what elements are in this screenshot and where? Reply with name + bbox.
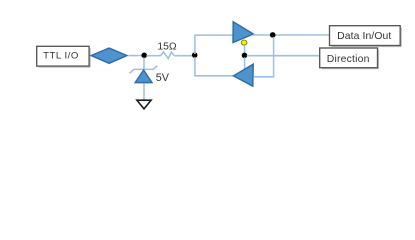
wire enable stub down to node C [244, 46, 246, 54]
svg-text:15Ω: 15Ω [157, 41, 177, 52]
box Data In/Out [330, 26, 402, 47]
wire node D down to buffer U2 input [253, 37, 273, 77]
wire node B down to buffer U2 output [195, 57, 233, 76]
box TTL I/O [37, 46, 90, 67]
node A junction [141, 53, 147, 59]
diamond D1 bidirectional port symbol [91, 48, 127, 63]
wire node A to resistor [147, 55, 161, 57]
wire node C down to buffer U2 enable [244, 57, 246, 69]
svg-text:TTL I/O: TTL I/O [43, 50, 79, 61]
wire node B up to buffer U1 input [195, 35, 233, 54]
wire resistor to node B [174, 55, 194, 57]
wire buffer U1 output to Data In/Out box [253, 34, 330, 36]
svg-text:Data In/Out: Data In/Out [337, 31, 391, 42]
zener Z1 anode triangle [135, 70, 152, 83]
ground symbol [137, 100, 151, 109]
buffer U2 (receive from bus) [234, 64, 254, 86]
wire node C to Direction box [247, 55, 320, 57]
node C junction [242, 53, 248, 59]
node B junction [192, 52, 198, 58]
zener Z1 cathode bar with bent ends [130, 66, 158, 74]
svg-text:5V: 5V [156, 72, 170, 84]
wire diamond to node A [129, 55, 144, 57]
resistor R1 zigzag [161, 52, 175, 58]
wire node A down to zener Z1 [143, 58, 145, 70]
box Direction [320, 48, 379, 69]
buffer U1 (drive toward bus) [233, 22, 253, 43]
node D junction [270, 32, 276, 38]
wire zener to ground [143, 83, 145, 99]
svg-text:Direction: Direction [327, 54, 370, 65]
enable endpoint (yellow) on U1 [241, 40, 247, 45]
